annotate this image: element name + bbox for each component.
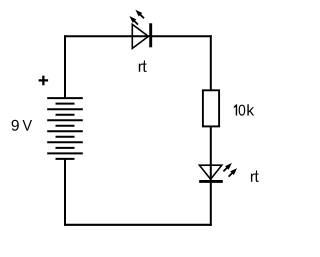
resistor R1 10k (203, 90, 219, 126)
battery positive terminal mark + (39, 76, 49, 86)
D2 light arrow 2 (229, 172, 234, 177)
label 9 V (12, 120, 32, 131)
D1 light arrow 2 (133, 20, 138, 25)
label 10k (234, 104, 254, 115)
label rt (top LED) (139, 60, 147, 72)
wire right upper (210, 35, 212, 91)
wire top (64, 35, 212, 37)
wire right lower (210, 126, 212, 226)
D2 cathode bar (199, 180, 223, 183)
wire left upper (64, 35, 66, 99)
D1 light arrow 1 (139, 14, 144, 19)
label rt (bottom LED) (251, 170, 259, 182)
LED D1 (top, red) (129, 10, 150, 49)
LED D2 (bottom, red) (199, 163, 237, 182)
D1 anode triangle (132, 24, 148, 48)
wire left lower (64, 159, 66, 226)
battery B1 9V (47, 98, 83, 159)
D1 cathode bar (149, 23, 152, 47)
D2 anode triangle (199, 165, 221, 179)
wire bottom (64, 224, 212, 226)
D2 light arrow 1 (223, 167, 228, 172)
